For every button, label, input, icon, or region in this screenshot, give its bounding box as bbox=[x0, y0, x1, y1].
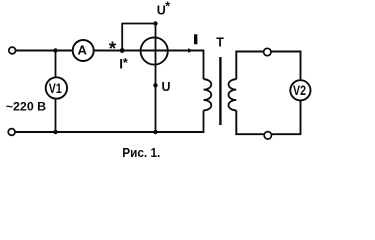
ammeter A bbox=[73, 40, 94, 61]
svg-text:U: U bbox=[162, 80, 171, 94]
label I (current) bbox=[194, 34, 197, 44]
input terminal top-left bbox=[9, 47, 16, 54]
secondary output terminal bottom bbox=[264, 132, 271, 139]
wire: top main wire from input terminal through A and W to transformer bbox=[16, 50, 204, 52]
svg-text:Рис. 1.: Рис. 1. bbox=[122, 145, 160, 160]
wattmeter W body bbox=[141, 37, 168, 64]
transformer core bbox=[219, 57, 221, 125]
transformer T primary winding bbox=[204, 79, 212, 110]
svg-text:V1: V1 bbox=[49, 81, 62, 96]
svg-text:*: * bbox=[123, 56, 128, 70]
voltmeter V1 bbox=[46, 77, 67, 98]
junction node: V1 top bbox=[53, 48, 57, 52]
input terminal bottom-left bbox=[8, 129, 15, 136]
wire: V1 branch vertical bbox=[55, 51, 57, 133]
wire: bottom main wire bbox=[16, 131, 205, 133]
wire: primary top lead down to winding bbox=[203, 50, 205, 80]
junction node: wattmeter * terminal bbox=[120, 48, 125, 53]
transformer T secondary winding bbox=[228, 79, 236, 110]
svg-text:*: * bbox=[109, 39, 117, 60]
svg-text:T: T bbox=[216, 36, 224, 50]
secondary output terminal top bbox=[264, 48, 271, 55]
wire: primary bottom lead bbox=[203, 110, 205, 132]
svg-text:V2: V2 bbox=[293, 83, 306, 98]
wire: wattmeter voltage coil vertical U*-U down to bottom wire bbox=[155, 24, 157, 133]
wire: secondary measuring loop bbox=[236, 52, 300, 135]
svg-text:~220 В: ~220 В bbox=[6, 100, 46, 114]
junction node: V1 bottom bbox=[53, 130, 57, 134]
junction node: U* corner bbox=[153, 21, 157, 25]
svg-text:A: A bbox=[78, 42, 88, 57]
voltmeter V2 bbox=[290, 80, 310, 100]
svg-text:*: * bbox=[165, 0, 170, 14]
junction node: U terminal bbox=[153, 83, 157, 87]
wire: wattmeter voltage loop from * node up and over to U* bbox=[122, 24, 155, 51]
junction node: U line bottom bbox=[153, 130, 157, 134]
current direction arrow bbox=[188, 48, 193, 52]
